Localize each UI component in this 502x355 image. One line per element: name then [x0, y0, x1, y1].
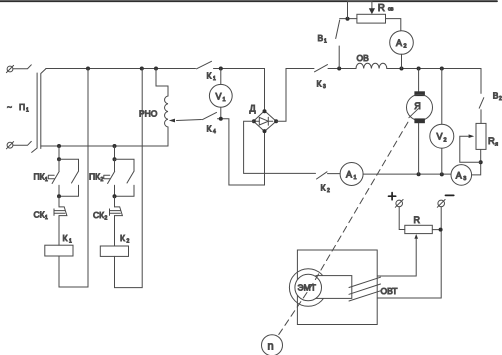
svg-text:СК: СК: [93, 210, 104, 220]
terminal X2 (bottom left input): [7, 142, 13, 148]
wire A3 to Rя bottom: [472, 162, 481, 175]
svg-text:R: R: [488, 136, 495, 147]
wire: [401, 54, 403, 68]
node split: [57, 157, 61, 161]
wire: [13, 141, 31, 145]
autotransformer PHO coil: [165, 96, 168, 127]
svg-text:К: К: [207, 124, 212, 134]
node split: [113, 157, 117, 161]
svg-text:П: П: [19, 102, 25, 112]
node R right: [439, 228, 443, 232]
wire: [114, 146, 116, 159]
branch 1: node on bottom rail: [57, 144, 61, 148]
wire coil K1 return to top rail: [59, 69, 88, 288]
wire PHO coil bottom to bottom rail: [167, 127, 169, 146]
wire - down to OVT: [378, 207, 441, 298]
svg-text:3: 3: [463, 176, 466, 182]
wire: [328, 68, 356, 70]
node armature bottom: [417, 172, 421, 176]
svg-text:V: V: [437, 132, 443, 142]
svg-text:R: R: [378, 3, 385, 14]
switch B1: [338, 46, 340, 69]
svg-text:2: 2: [327, 188, 330, 194]
wire: [480, 110, 482, 124]
node rejoin: [57, 194, 61, 198]
wire: [328, 173, 341, 175]
svg-text:ПК: ПК: [89, 172, 100, 182]
svg-text:2: 2: [105, 216, 108, 222]
svg-text:2: 2: [101, 177, 104, 183]
wire: [218, 119, 265, 185]
svg-text:1: 1: [45, 215, 48, 221]
svg-text:1: 1: [69, 239, 72, 245]
switch П1 (two-pole knife, double line): [32, 73, 37, 152]
node Rя bottom junction: [479, 160, 483, 164]
label -: [446, 194, 454, 196]
svg-text:3: 3: [323, 84, 326, 90]
svg-text:К: К: [207, 71, 212, 81]
wire bottom rail: [41, 145, 168, 147]
svg-text:1: 1: [354, 175, 357, 181]
wire: [58, 146, 60, 159]
wire: [340, 18, 357, 20]
wire slider loop over Rов: [348, 1, 372, 18]
node branch K2 coil return on top rail: [140, 67, 144, 71]
wire: [386, 19, 401, 31]
contact K2 (bottom bus): [317, 172, 328, 179]
svg-text:1: 1: [223, 97, 226, 103]
voltmeter V2: [441, 69, 443, 125]
svg-text:n: n: [268, 341, 274, 353]
node V1 bottom: [219, 117, 223, 121]
winding OVT leads (hatch): [349, 277, 381, 301]
self-hold contact K2 aux: [115, 159, 135, 170]
node armature top: [417, 67, 421, 71]
svg-text:К: К: [63, 233, 68, 243]
svg-text:К: К: [120, 233, 125, 243]
svg-text:ОВТ: ОВТ: [381, 286, 398, 296]
contact СК2: [114, 196, 116, 207]
push button ПК2: [114, 159, 116, 171]
inductor OB (field winding): [356, 63, 387, 68]
wire: [363, 173, 451, 175]
wire coil K2 return to top rail: [115, 69, 143, 288]
svg-text:Д: Д: [250, 104, 256, 114]
svg-text:2: 2: [444, 137, 447, 143]
node bridge left: [252, 119, 256, 123]
diode inside bridge: [256, 120, 273, 122]
autotransformer PHO drop wire: [156, 69, 168, 97]
wire: [387, 68, 481, 70]
node branch K1 coil return on top rail: [86, 67, 90, 71]
svg-text:1: 1: [26, 108, 29, 114]
terminal -: [438, 200, 445, 207]
rheostat R (brake excitation): [405, 225, 433, 233]
rheostat Rов: [357, 14, 386, 23]
ammeter A3: [451, 165, 472, 186]
svg-text:1: 1: [45, 177, 48, 183]
coil K2: [100, 246, 128, 256]
node V2 bottom: [440, 172, 444, 176]
wire top rail: [46, 68, 196, 70]
wire R right to node: [432, 229, 441, 231]
contact K4 (voltmeter bottom wire): [203, 112, 217, 119]
svg-text:1: 1: [324, 39, 327, 45]
svg-text:2: 2: [404, 44, 407, 50]
node PHO feed on top rail: [154, 67, 158, 71]
label +: [389, 193, 396, 200]
svg-text:СК: СК: [34, 210, 45, 220]
node rejoin: [113, 194, 117, 198]
svg-text:В: В: [318, 33, 324, 43]
brake box: [297, 250, 377, 325]
top border frame line: [0, 0, 497, 2]
node rheostat Rов left: [346, 17, 350, 21]
svg-text:V: V: [216, 91, 222, 101]
svg-text:А: А: [456, 170, 462, 180]
switch B2: [480, 69, 482, 94]
ammeter A2: [390, 31, 414, 55]
node V1 top: [219, 67, 223, 71]
contact K1 (top rail): [197, 61, 212, 69]
Rя slider arrow: [469, 134, 475, 138]
terminal +: [396, 200, 403, 207]
svg-text:2: 2: [127, 239, 130, 245]
svg-text:ПК: ПК: [34, 172, 45, 182]
voltmeter V1: [220, 69, 222, 85]
dashed shaft line (Я — ЭМТ — n): [278, 122, 408, 336]
node bridge bottom: [263, 129, 267, 133]
ammeter A1: [340, 163, 363, 186]
svg-text:А: А: [346, 170, 352, 180]
terminal X1 (top left input): [7, 66, 13, 72]
brake EMT outer circle: [289, 269, 327, 307]
self-hold contact K1 aux: [59, 159, 79, 170]
node bridge top: [263, 109, 267, 113]
branch 2: node on bottom rail: [113, 144, 117, 148]
coil K1: [45, 245, 73, 256]
svg-text:ОВ: ОВ: [357, 53, 370, 63]
arrow onto Rов: [369, 8, 375, 14]
svg-text:К: К: [317, 79, 322, 89]
node V2 top: [440, 67, 444, 71]
svg-text:ов: ов: [388, 6, 394, 12]
tachometer n: [262, 335, 283, 355]
svg-text:1: 1: [213, 76, 216, 82]
wire + to R: [399, 207, 405, 230]
contact СК1: [58, 196, 60, 207]
PHO slider arrow: [177, 120, 202, 121]
contact K3 (field circuit): [315, 65, 328, 72]
node A2 bottom: [400, 67, 404, 71]
wire Rя bottom: [480, 150, 482, 163]
svg-text:я: я: [495, 142, 498, 148]
brake EMT inner circle: [295, 274, 322, 301]
svg-text:R: R: [414, 215, 421, 225]
rheostat Rя: [476, 123, 486, 149]
push button ПК1: [58, 159, 60, 171]
svg-text:~: ~: [7, 102, 12, 112]
node bridge right: [274, 119, 278, 123]
brake winding block: [316, 276, 352, 299]
svg-text:К: К: [321, 183, 326, 193]
svg-text:4: 4: [213, 129, 216, 135]
svg-text:В: В: [493, 90, 499, 100]
R slider arrow: [414, 234, 418, 239]
node B1 branch: [337, 67, 341, 71]
svg-text:А: А: [396, 38, 402, 48]
wire bridge right corner riser: [276, 69, 314, 122]
wire bridge left corner to bottom bus: [244, 121, 316, 173]
armature Я: [418, 69, 420, 92]
wire: [13, 65, 31, 69]
wire: [214, 69, 265, 112]
